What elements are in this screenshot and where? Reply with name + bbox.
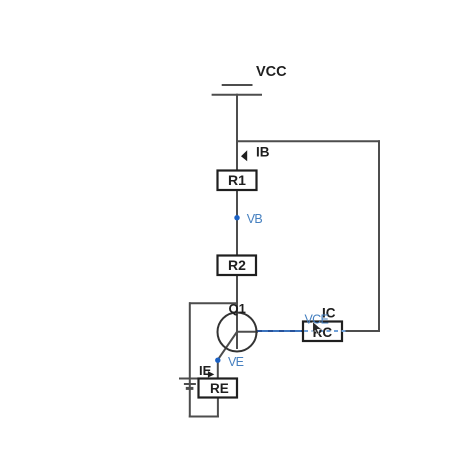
svg-text:RE: RE bbox=[210, 381, 229, 396]
svg-text:VB: VB bbox=[247, 212, 263, 226]
svg-text:Q1: Q1 bbox=[229, 301, 246, 316]
svg-text:VCE: VCE bbox=[305, 312, 329, 326]
svg-text:VCC: VCC bbox=[256, 64, 287, 80]
svg-text:VE: VE bbox=[228, 355, 244, 369]
svg-text:R1: R1 bbox=[228, 172, 246, 188]
svg-text:IB: IB bbox=[256, 145, 270, 160]
svg-text:R2: R2 bbox=[228, 257, 246, 273]
